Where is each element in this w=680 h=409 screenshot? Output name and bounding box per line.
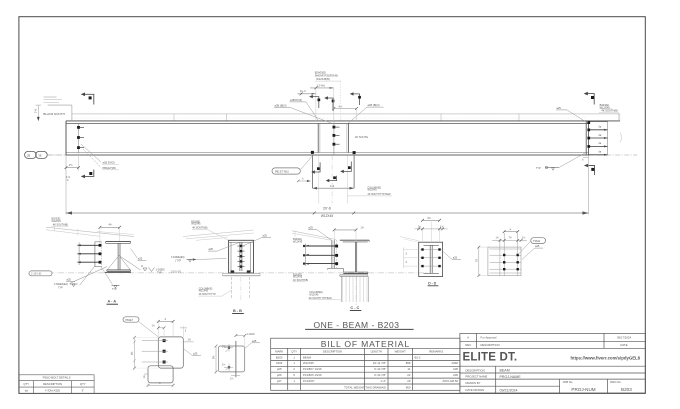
C bottom flange: [343, 271, 367, 273]
svg-text:3E: 3E: [38, 154, 41, 158]
svg-text:SHEAR P25(P26-B): SHEAR P25(P26-B): [315, 74, 338, 78]
section B fillet marks: [231, 270, 235, 272]
svg-text:TYP: TYP: [536, 167, 541, 170]
center bottom weld note A: [112, 285, 120, 287]
plate outline: [219, 346, 245, 372]
svg-text:⅞: ⅞: [302, 177, 304, 180]
vertical dim left of BLANK SOUTH: [37, 105, 39, 121]
svg-text:a25: a25: [453, 256, 458, 260]
leaders to bottom-left notes A: [80, 266, 95, 285]
beam bottom flange line 2: [66, 154, 588, 156]
svg-text:DRAWN BY: DRAWN BY: [466, 381, 481, 385]
svg-text:a25: a25: [252, 339, 257, 343]
svg-text:DESCRIPTION: DESCRIPTION: [481, 343, 500, 347]
svg-text:B203: B203: [621, 387, 632, 392]
C web: [355, 242, 357, 272]
svg-text:B - B: B - B: [233, 309, 242, 313]
centerline dash-dot left: [48, 154, 66, 156]
svg-text:7B: 7B: [476, 259, 479, 262]
svg-text:A - A: A - A: [108, 300, 117, 304]
left dim line: [134, 337, 136, 368]
svg-text:da: da: [25, 388, 29, 392]
bolts: [503, 254, 519, 271]
svg-text:TYP: TYP: [112, 288, 117, 291]
left dim line: [215, 346, 217, 372]
svg-text:W12X45: W12X45: [321, 214, 333, 218]
stadium label: [123, 317, 139, 322]
D beam end view: [429, 246, 431, 274]
svg-text:WEIGHT: WEIGHT: [395, 349, 406, 353]
left end leader labels: [81, 144, 101, 162]
svg-text:a2B.(B)(3): a2B.(B)(3): [275, 104, 287, 108]
svg-text:2'-6: 2'-6: [35, 108, 38, 113]
svg-text:REV: REV: [465, 343, 471, 347]
C top flange: [340, 239, 369, 241]
svg-text:a25: a25: [138, 257, 143, 261]
left end bolts: [77, 126, 80, 149]
svg-text:LENGTH: LENGTH: [371, 349, 382, 353]
svg-text:ELITE DT.: ELITE DT.: [463, 351, 518, 363]
svg-text:( TYP: ( TYP: [175, 259, 181, 262]
svg-text:a25: a25: [263, 233, 268, 237]
vertical lines: [499, 239, 501, 276]
svg-text:B2-2: B2-2: [415, 355, 421, 359]
svg-text:BEAM: BEAM: [303, 355, 312, 359]
svg-text:0'-10 7/8": 0'-10 7/8": [374, 367, 386, 371]
weld lambda leader A: [108, 256, 141, 271]
section row stadium label: [29, 271, 52, 276]
svg-text:PROJ-NAME: PROJ-NAME: [500, 375, 522, 379]
svg-text:b203: b203: [276, 361, 283, 365]
section B web pair: [239, 242, 241, 271]
svg-text:20'-6: 20'-6: [323, 206, 331, 210]
svg-text:QTY: QTY: [80, 382, 86, 386]
D bolts: [421, 248, 440, 267]
svg-text:https://www.fiverr.com/s/pdyGE: https://www.fiverr.com/s/pdyGEL8: [571, 355, 641, 360]
svg-text:⅜: ⅜: [141, 265, 143, 268]
svg-text:1-13/16: 1-13/16: [247, 333, 256, 336]
beam top flange line 2: [66, 122, 588, 124]
svg-text:29: 29: [407, 379, 411, 383]
section flag A bottom: [85, 170, 94, 177]
svg-text:PROJECT NAME: PROJECT NAME: [466, 375, 488, 379]
svg-text:TYP: TYP: [157, 271, 162, 274]
svg-text:1½: 1½: [188, 338, 191, 342]
beam bottom flange line 1: [66, 152, 588, 154]
mid bolt column: [333, 120, 335, 156]
left end bolt column: [78, 123, 80, 152]
svg-text:DESCRIPTION: DESCRIPTION: [43, 382, 62, 386]
svg-text:TYP: TYP: [58, 286, 63, 289]
svg-text:3": 3": [82, 388, 85, 392]
D outer plate: [419, 242, 443, 276]
svg-text:PB1E7: PB1E7: [126, 319, 134, 322]
beam top flange line 1: [66, 120, 620, 122]
stiffener right pair: [346, 123, 348, 152]
beam left end plate line: [65, 121, 67, 155]
D top extension lines: [422, 230, 424, 243]
svg-text:4K SOUTH TYP BLW: 4K SOUTH TYP BLW: [309, 297, 333, 300]
svg-text:⅝: ⅝: [67, 179, 69, 182]
left dim line: [478, 247, 480, 276]
svg-text:09/21/2024: 09/21/2024: [500, 388, 518, 392]
svg-text:1'-10 (-0"): 1'-10 (-0"): [171, 270, 182, 273]
I-beam section A: top flange: [106, 241, 131, 243]
svg-text:2B: 2B: [27, 154, 30, 158]
C bolt rows: [304, 246, 336, 264]
right end extension line down: [587, 155, 589, 214]
grid line dash to beam: [48, 154, 67, 156]
column hatch below C: [343, 276, 368, 302]
beam edge line: [235, 341, 237, 377]
svg-text:QTY: QTY: [291, 349, 297, 353]
column below B: [231, 277, 233, 299]
svg-text:DATE: DATE: [620, 343, 627, 347]
svg-text:BILL OF MATERIAL: BILL OF MATERIAL: [321, 339, 410, 349]
svg-text:a25: a25: [67, 278, 72, 282]
D bolt hole rows: [420, 250, 442, 267]
svg-text:C - C: C - C: [350, 306, 359, 310]
svg-text:JOB No.: JOB No.: [563, 380, 574, 384]
svg-text:09/17/2024: 09/17/2024: [617, 336, 631, 340]
lower tab plate: [148, 366, 173, 383]
svg-text:4K SOUTH(B): 4K SOUTH(B): [601, 109, 618, 113]
stadium label left of column stub: [272, 168, 300, 174]
deck slope lines B: [183, 230, 254, 237]
mid flags below beam: [314, 162, 320, 172]
dim 11 7/8: [298, 93, 316, 95]
section flag right top: [587, 94, 594, 105]
small arc dim right: [620, 133, 622, 143]
svg-text:A992: A992: [451, 361, 458, 365]
svg-text:A572-GR.50: A572-GR.50: [442, 379, 458, 383]
svg-text:a25: a25: [535, 244, 540, 248]
svg-text:A36: A36: [453, 367, 458, 371]
svg-text:MARK: MARK: [275, 349, 283, 353]
svg-text:For Approval: For Approval: [481, 336, 497, 340]
right end bolt lines: [588, 121, 607, 154]
svg-text:p25: p25: [277, 367, 282, 371]
svg-text:4K SOUTH TYP: 4K SOUTH TYP: [199, 293, 217, 296]
right top small dims: [182, 326, 184, 337]
svg-text:a25: a25: [209, 247, 214, 251]
svg-text:a25: a25: [193, 352, 198, 356]
svg-text:22: 22: [407, 373, 411, 377]
D left extension rows: [404, 250, 419, 267]
deck slope lines C: [292, 231, 336, 240]
flags top mid: [312, 97, 319, 108]
svg-text:PL3/4X6": PL3/4X6": [303, 379, 315, 383]
svg-text:4K SOUTH: 4K SOUTH: [355, 135, 368, 139]
svg-text:PL3/8X5 13/16: PL3/8X5 13/16: [303, 373, 322, 377]
svg-text:a1B.(B)(3): a1B.(B)(3): [368, 103, 380, 107]
svg-text:1'-10' (-0'): 1'-10' (-0'): [31, 274, 41, 276]
svg-text:a1B.DV(3): a1B.DV(3): [103, 161, 115, 165]
svg-text:ONE - BEAM - B203: ONE - BEAM - B203: [314, 320, 400, 330]
shear plate A: [94, 242, 96, 267]
svg-text:TS6dd: TS6dd: [533, 240, 541, 243]
svg-text:19'-11 7/8": 19'-11 7/8": [373, 361, 386, 365]
right end flag bottom: [588, 166, 595, 176]
svg-text:1'-2: 1'-2: [330, 184, 335, 188]
svg-text:PB1 E7 W10: PB1 E7 W10: [275, 171, 289, 174]
bolts: [228, 347, 230, 349]
I-beam section A: bottom flange: [107, 269, 131, 271]
svg-text:REMARKS: REMARKS: [429, 349, 443, 353]
svg-text:a1B.DV(3): a1B.DV(3): [290, 98, 302, 102]
bolt rows A: [77, 245, 100, 262]
section flag A top: [85, 94, 94, 104]
svg-text:W12X45: W12X45: [293, 241, 303, 244]
section B outer box: [229, 240, 254, 273]
svg-text:W12X45: W12X45: [368, 189, 378, 192]
column stub below mid connection: [311, 155, 313, 188]
I-beam section A: web: [117, 243, 119, 270]
svg-text:11-⅞: 11-⅞: [300, 89, 307, 93]
svg-text:A36: A36: [453, 373, 458, 377]
centerline dash-dot right: [588, 154, 637, 156]
svg-text:PB1(E7)(B): PB1(E7)(B): [103, 166, 116, 170]
svg-text:0'-10 7/8": 0'-10 7/8": [374, 373, 386, 377]
svg-text:QTY: QTY: [23, 382, 29, 386]
svg-text:DESCRIPTION: DESCRIPTION: [466, 368, 485, 372]
svg-text:BLAN2 SOUTH: BLAN2 SOUTH: [43, 112, 65, 116]
bolt row lines: [490, 249, 522, 273]
svg-text:9½: 9½: [211, 356, 215, 359]
grid bubbles left: [25, 151, 48, 158]
svg-text:a25: a25: [309, 226, 314, 230]
svg-text:FIELD BOLT DETAILS: FIELD BOLT DETAILS: [43, 376, 71, 380]
svg-text:W12X45: W12X45: [303, 361, 314, 365]
mid bolts: [333, 126, 336, 146]
svg-text:DATE DRAWN: DATE DRAWN: [466, 388, 485, 392]
svg-text:p26: p26: [277, 373, 282, 377]
stadium label: [531, 238, 546, 244]
svg-text:898: 898: [406, 361, 411, 365]
BLANK SOUTH label: [48, 104, 72, 106]
C base plate: [340, 274, 368, 276]
svg-text:9½: 9½: [130, 352, 134, 355]
svg-text:TOTAL WEIGHT THIS DRAWING: TOTAL WEIGHT THIS DRAWING: [344, 385, 386, 389]
svg-text:1'-2": 1'-2": [380, 379, 386, 383]
svg-text:4K SOUTH(B): 4K SOUTH(B): [293, 279, 308, 282]
svg-text:12'-6⅝: 12'-6⅝: [317, 83, 326, 87]
svg-text:A: A: [467, 336, 469, 340]
dim 12'-6 5/8: [310, 87, 334, 89]
deck panel ticks: [174, 114, 620, 121]
stiffener left pair: [317, 123, 319, 152]
svg-text:a25: a25: [557, 106, 562, 110]
svg-text:B203: B203: [276, 355, 283, 359]
deck slope lines A: [46, 227, 134, 236]
svg-text:DESCRIPTION: DESCRIPTION: [323, 349, 342, 353]
svg-text:4K SOUTH(B): 4K SOUTH(B): [192, 227, 207, 230]
left small dim: [144, 373, 148, 375]
deck top edge line: [72, 113, 620, 115]
svg-text:BEAM: BEAM: [500, 369, 510, 373]
svg-text:D - D: D - D: [428, 281, 436, 285]
stub bottom dim 1'-2: [312, 187, 354, 189]
C end plate: [331, 240, 333, 268]
dim 4 7/8 mid: [334, 108, 357, 110]
section B base plate: [223, 272, 260, 274]
svg-text:¾"DIA A325: ¾"DIA A325: [45, 388, 60, 392]
main plate: [158, 337, 183, 368]
beam right end plate lines: [585, 121, 587, 155]
svg-text:PROJ-NUM: PROJ-NUM: [571, 387, 595, 392]
svg-text:DRG No.: DRG No.: [610, 380, 622, 384]
plate outline: [488, 247, 521, 276]
svg-text:p27: p27: [277, 379, 282, 383]
svg-text:960: 960: [406, 385, 411, 389]
right weld note A: [143, 268, 147, 271]
bolts: [163, 339, 166, 342]
svg-text:W12X45: W12X45: [191, 223, 201, 226]
left end small dim: [78, 153, 80, 171]
svg-text:W12X45(B): W12X45(B): [316, 77, 330, 81]
small notes rows above BLANK SOUTH: [44, 96, 57, 98]
section B bolts: [240, 245, 242, 268]
svg-text:⅞: ⅞: [582, 158, 584, 161]
left end extension line down: [65, 155, 67, 214]
svg-text:PL3/8X7 13/16: PL3/8X7 13/16: [303, 367, 322, 371]
svg-text:11: 11: [407, 367, 410, 371]
slope light lines D: [400, 237, 419, 241]
